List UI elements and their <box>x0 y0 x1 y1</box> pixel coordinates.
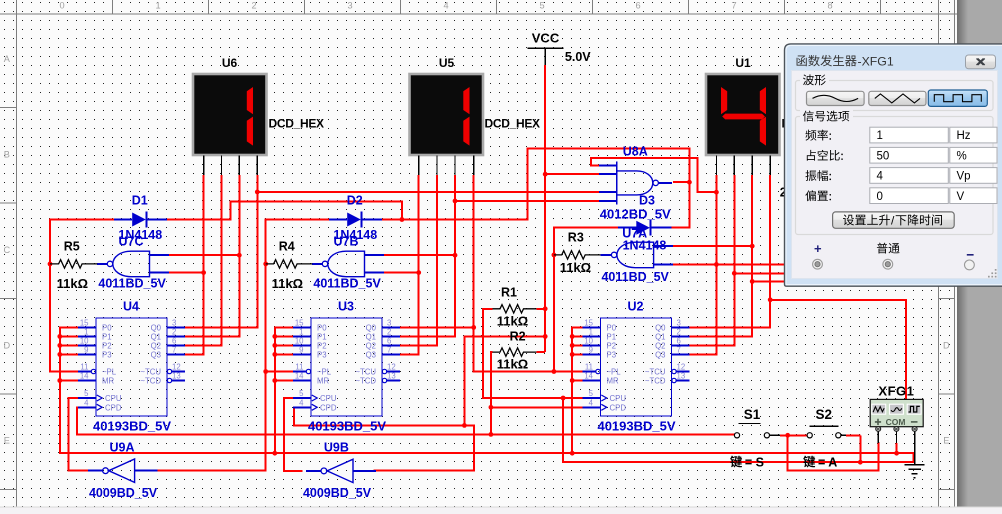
svg-text:50: 50 <box>877 150 890 162</box>
svg-text:5: 5 <box>84 389 89 398</box>
wire: U6 pin c to U4 Q1 <box>185 175 239 337</box>
nand gate U8A 4012BD_5V <box>617 171 653 195</box>
display pins U5 <box>418 155 420 175</box>
svg-text:R4: R4 <box>279 240 295 254</box>
svg-text:4011BD_5V: 4011BD_5V <box>601 270 669 284</box>
svg-text:15: 15 <box>80 319 89 328</box>
svg-text:COM: COM <box>886 417 906 427</box>
counter U4 40193BD_5V <box>78 300 185 434</box>
svg-text:40193BD_5V: 40193BD_5V <box>597 419 675 434</box>
svg-text:P0: P0 <box>607 324 617 333</box>
svg-text:3: 3 <box>347 1 352 11</box>
svg-text:Q0: Q0 <box>366 324 377 333</box>
svg-text:P1: P1 <box>317 333 327 342</box>
svg-text:2: 2 <box>387 328 391 337</box>
svg-text:2: 2 <box>251 1 256 11</box>
svg-text:11kΩ: 11kΩ <box>560 260 591 275</box>
wire: R2 right to VCC <box>536 351 545 353</box>
svg-text:1N4148: 1N4148 <box>118 228 162 242</box>
svg-text:~TCU: ~TCU <box>140 368 161 377</box>
svg-text:9: 9 <box>299 346 303 355</box>
svg-text:12: 12 <box>172 363 181 372</box>
switch S1 <box>739 423 761 425</box>
svg-text:10: 10 <box>295 337 304 346</box>
resistor R4 11k <box>266 260 313 268</box>
wire: U3 CPD to U9B input <box>293 407 474 470</box>
svg-text:U4: U4 <box>123 300 139 314</box>
svg-text:1: 1 <box>84 328 88 337</box>
wire: R1 right to VCC <box>536 308 545 310</box>
wire: U7B inputs <box>384 254 455 256</box>
svg-text:7: 7 <box>677 346 681 355</box>
svg-text:7: 7 <box>172 346 176 355</box>
svg-text:4012BD_5V: 4012BD_5V <box>600 206 671 221</box>
svg-text:Q1: Q1 <box>366 333 376 342</box>
svg-text:D3: D3 <box>639 194 655 208</box>
svg-text:S1: S1 <box>744 407 761 422</box>
wire: U1 pin a to U2 Q3 <box>689 175 716 355</box>
svg-text:%: % <box>957 150 967 162</box>
svg-text:U5: U5 <box>439 56 455 70</box>
resistor R5 11k <box>50 260 97 268</box>
label key A <box>803 456 815 468</box>
XFG1 pin leads <box>877 431 879 443</box>
wire: D3 anode / R3 vertical <box>554 228 618 372</box>
svg-text:6: 6 <box>635 1 640 11</box>
svg-text:3: 3 <box>387 319 391 328</box>
svg-text:U1: U1 <box>735 56 751 70</box>
svg-text:1: 1 <box>155 1 160 11</box>
svg-text:4: 4 <box>443 1 448 11</box>
svg-text:0: 0 <box>59 1 64 11</box>
svg-text:Hz: Hz <box>957 130 971 142</box>
counter U3 40193BD_5V <box>293 300 400 434</box>
svg-text:11kΩ: 11kΩ <box>497 313 528 328</box>
svg-text:5: 5 <box>299 389 304 398</box>
svg-text:U6: U6 <box>222 56 238 70</box>
switch S2 right lead <box>841 434 846 436</box>
svg-text:P0: P0 <box>317 324 327 333</box>
svg-text:5: 5 <box>539 1 544 11</box>
wire: VCC rail <box>544 65 546 352</box>
svg-text:4: 4 <box>877 171 884 183</box>
wire: R1 left to U2 CPU <box>483 309 583 398</box>
svg-text:U3: U3 <box>338 300 354 314</box>
svg-text:3: 3 <box>172 319 176 328</box>
svg-text:Q3: Q3 <box>366 351 376 360</box>
wire: U2 P/MR tie <box>572 327 582 453</box>
wire: U7A bottom input line under dialog <box>672 263 785 265</box>
svg-text:2: 2 <box>677 328 681 337</box>
svg-text:7: 7 <box>731 1 736 11</box>
svg-text:~TCD: ~TCD <box>355 377 376 386</box>
svg-text:MR: MR <box>102 377 114 386</box>
svg-text:4011BD_5V: 4011BD_5V <box>98 277 166 291</box>
svg-text:XFG1: XFG1 <box>878 384 914 399</box>
svg-text:1: 1 <box>589 328 593 337</box>
function generator dialog XFG1 <box>785 44 1002 286</box>
svg-text:15: 15 <box>295 319 304 328</box>
svg-text:40193BD_5V: 40193BD_5V <box>93 419 171 434</box>
svg-text:D1: D1 <box>132 194 148 208</box>
svg-text:D2: D2 <box>347 194 363 208</box>
svg-text:CPD: CPD <box>610 404 627 413</box>
switch S2 <box>810 425 839 427</box>
wire: S1-S2 junction to XFG1 plus <box>780 434 807 436</box>
wire: U1 pin c to U2 Q1 <box>689 175 752 337</box>
svg-text:P2: P2 <box>102 342 112 351</box>
inverter U9B 4009BD_5V (mirrored) <box>327 459 353 482</box>
resistor R2 11k <box>493 348 537 356</box>
wire: pin d line to XFG1 <box>770 300 906 400</box>
svg-text:C: C <box>3 245 10 255</box>
label key S <box>730 456 742 468</box>
wire: U7A top input <box>672 245 753 247</box>
svg-text:D: D <box>3 340 10 350</box>
svg-text:11kΩ: 11kΩ <box>272 276 303 291</box>
svg-text:CPU: CPU <box>610 394 627 403</box>
wire: U3 CPU from U9B output <box>284 398 302 471</box>
svg-text:Q2: Q2 <box>151 342 161 351</box>
svg-text:P3: P3 <box>317 351 327 360</box>
resistor R1 11k <box>493 305 537 313</box>
wire: U9A input line up R4 net / D2 anode / U3 ~PL <box>157 220 328 471</box>
wire: U6 pin d to U4 Q0 <box>185 175 257 328</box>
svg-text:11: 11 <box>295 363 303 372</box>
svg-text:Q2: Q2 <box>655 342 665 351</box>
U7C output lead <box>97 263 107 265</box>
svg-text:P3: P3 <box>607 351 617 360</box>
svg-text:9: 9 <box>84 346 88 355</box>
svg-text:P3: P3 <box>102 351 112 360</box>
wire: D1 cathode jog to D2 cathode line <box>167 201 402 219</box>
svg-text:A: A <box>4 54 11 64</box>
7-seg display U5 <box>410 74 484 155</box>
svg-text:U9A: U9A <box>109 440 134 454</box>
wire: U6 pin a to U4 Q3 <box>185 175 204 355</box>
svg-text:DCD_HEX: DCD_HEX <box>485 117 541 131</box>
svg-text:CPU: CPU <box>320 394 337 403</box>
svg-text:14: 14 <box>295 372 304 381</box>
svg-text:= S: = S <box>745 455 764 469</box>
svg-text:9: 9 <box>589 346 593 355</box>
wire: U7C inputs <box>169 254 239 256</box>
svg-text:MR: MR <box>317 377 329 386</box>
wire: U4 CPU from U9A output <box>69 398 88 471</box>
svg-text:11kΩ: 11kΩ <box>497 357 528 372</box>
svg-text:11: 11 <box>80 363 88 372</box>
svg-text:4: 4 <box>299 399 304 408</box>
svg-text:~TCD: ~TCD <box>140 377 161 386</box>
svg-text:-XFG1: -XFG1 <box>858 54 894 68</box>
svg-text:40193BD_5V: 40193BD_5V <box>308 419 386 434</box>
svg-text:~PL: ~PL <box>607 368 622 377</box>
wire: U8A input2 from VCC <box>545 173 599 175</box>
svg-text:S2: S2 <box>815 407 832 422</box>
svg-text:D: D <box>943 340 950 350</box>
nand gate U7B 4011BD_5V (mirrored) <box>328 251 365 277</box>
nand gate U7A 4011BD_5V (mirrored) <box>617 242 654 268</box>
svg-text:4011BD_5V: 4011BD_5V <box>313 277 381 291</box>
svg-text:4: 4 <box>589 399 594 408</box>
svg-text:6: 6 <box>677 337 681 346</box>
svg-text:4009BD_5V: 4009BD_5V <box>89 486 158 500</box>
wire: U4 CPD long clock line to S1 <box>77 407 734 434</box>
svg-text:1: 1 <box>299 328 303 337</box>
ground symbol <box>905 464 925 466</box>
svg-text:E: E <box>4 436 10 446</box>
svg-text:P1: P1 <box>607 333 617 342</box>
svg-text:1N4148: 1N4148 <box>623 238 667 252</box>
svg-text:MR: MR <box>607 377 619 386</box>
svg-text:13: 13 <box>677 372 686 381</box>
svg-text:Q1: Q1 <box>655 333 665 342</box>
svg-text:= A: = A <box>818 455 837 469</box>
wire: D1 anode / R5 / U4 ~PL net <box>50 220 114 372</box>
wire: XFG1 COM to reset line <box>896 443 898 453</box>
7-seg display U6 <box>193 74 267 155</box>
wire: S2 right lead <box>846 434 860 436</box>
7-seg display U1 <box>706 74 780 155</box>
wire: diode-cathode / U8A output net <box>382 148 690 227</box>
svg-text:11: 11 <box>585 363 593 372</box>
svg-text:Vp: Vp <box>957 171 971 183</box>
svg-text:Q3: Q3 <box>655 351 665 360</box>
wire: U4 P/MR tie + long reset line to S2 <box>60 327 914 462</box>
nand gate U7C 4011BD_5V (mirrored) <box>113 251 150 277</box>
wire: U5 pin d / U3 Q0 / U2 ~PL line <box>474 175 583 372</box>
svg-text:CPD: CPD <box>320 404 337 413</box>
svg-text:1N4148: 1N4148 <box>333 228 377 242</box>
svg-text:CPU: CPU <box>105 394 122 403</box>
diode D3 1N4148 <box>618 227 636 229</box>
svg-text:6: 6 <box>172 337 176 346</box>
svg-text:P0: P0 <box>102 324 112 333</box>
wire: U8A input4 line <box>455 200 599 202</box>
svg-text:R5: R5 <box>64 240 80 254</box>
svg-text:V: V <box>957 191 965 203</box>
svg-text:5: 5 <box>589 389 594 398</box>
U7A output lead <box>600 254 611 256</box>
wire: U5 pin a to U3 Q3 <box>400 175 419 355</box>
svg-text:U9B: U9B <box>324 440 349 454</box>
svg-text:4: 4 <box>84 399 89 408</box>
svg-text:E: E <box>943 436 949 446</box>
svg-text:10: 10 <box>80 337 89 346</box>
svg-text:R2: R2 <box>510 329 526 343</box>
svg-text:12: 12 <box>677 363 686 372</box>
svg-text:~TCU: ~TCU <box>355 368 376 377</box>
diode D1 1N4148 <box>114 219 132 221</box>
svg-text:P2: P2 <box>607 342 617 351</box>
svg-text:4009BD_5V: 4009BD_5V <box>303 486 372 500</box>
svg-text:Q0: Q0 <box>151 324 162 333</box>
svg-text:DCD_HEX: DCD_HEX <box>269 117 325 131</box>
wire: U3 P/MR tie <box>275 327 293 453</box>
wire: U1 pin d to U2 Q0 <box>689 175 770 328</box>
svg-text:+: + <box>814 241 822 256</box>
svg-text:0: 0 <box>877 191 883 203</box>
svg-text:1: 1 <box>877 130 883 142</box>
svg-text:8: 8 <box>827 1 832 11</box>
svg-text:P2: P2 <box>317 342 327 351</box>
wire: U8A input1 route <box>591 158 717 192</box>
wire: U1 pin b to U2 Q2 <box>689 175 734 346</box>
wire: U8A input3 line <box>257 191 599 193</box>
svg-text:15: 15 <box>584 319 593 328</box>
resistor R3 11k <box>554 251 601 259</box>
wire: S2 right to lower rail <box>859 435 861 462</box>
svg-text:13: 13 <box>387 372 396 381</box>
svg-text:3: 3 <box>677 319 681 328</box>
U7B output lead <box>312 263 322 265</box>
svg-text:B: B <box>4 149 10 159</box>
svg-text:R1: R1 <box>501 286 517 300</box>
svg-text:10: 10 <box>584 337 593 346</box>
display pins U6 <box>203 155 205 175</box>
svg-text:6: 6 <box>387 337 391 346</box>
svg-text:CPD: CPD <box>105 404 122 413</box>
svg-text:13: 13 <box>172 372 181 381</box>
svg-text:~PL: ~PL <box>102 368 117 377</box>
svg-text:U2: U2 <box>628 300 644 314</box>
svg-text:11kΩ: 11kΩ <box>57 276 88 291</box>
svg-text:14: 14 <box>584 372 593 381</box>
counter U2 40193BD_5V <box>583 300 690 434</box>
wire: VCC link down to CPD line <box>464 336 545 425</box>
svg-text:2: 2 <box>172 328 176 337</box>
inverter U9A 4009BD_5V (mirrored) <box>109 459 135 482</box>
svg-text:12: 12 <box>387 363 396 372</box>
svg-text:R3: R3 <box>568 231 584 245</box>
svg-text:~TCD: ~TCD <box>645 377 666 386</box>
diode D2 1N4148 <box>329 219 347 221</box>
svg-text:Q0: Q0 <box>655 324 666 333</box>
svg-text:~TCU: ~TCU <box>645 368 666 377</box>
svg-text:7: 7 <box>387 346 391 355</box>
wire: R2 left down, U2 CPD branch <box>491 352 493 434</box>
svg-text:U8A: U8A <box>623 144 648 158</box>
svg-text:Q3: Q3 <box>151 351 161 360</box>
switch S1 right lead <box>770 434 780 436</box>
svg-text:P1: P1 <box>102 333 112 342</box>
wire: U5 pin c to U3 Q1 <box>400 175 455 337</box>
svg-text:5.0V: 5.0V <box>565 50 591 64</box>
svg-text:~PL: ~PL <box>317 368 332 377</box>
function generator XFG1 component <box>870 399 923 431</box>
display pins U1 <box>715 155 717 175</box>
svg-text:Q2: Q2 <box>366 342 376 351</box>
wire: U5 pin b to U3 Q2 <box>400 175 437 346</box>
wire: U6 pin b to U4 Q2 <box>185 175 221 346</box>
svg-text:Q1: Q1 <box>151 333 161 342</box>
power VCC 5.0V <box>544 48 546 65</box>
svg-text:VCC: VCC <box>532 31 560 46</box>
svg-text:14: 14 <box>80 372 89 381</box>
